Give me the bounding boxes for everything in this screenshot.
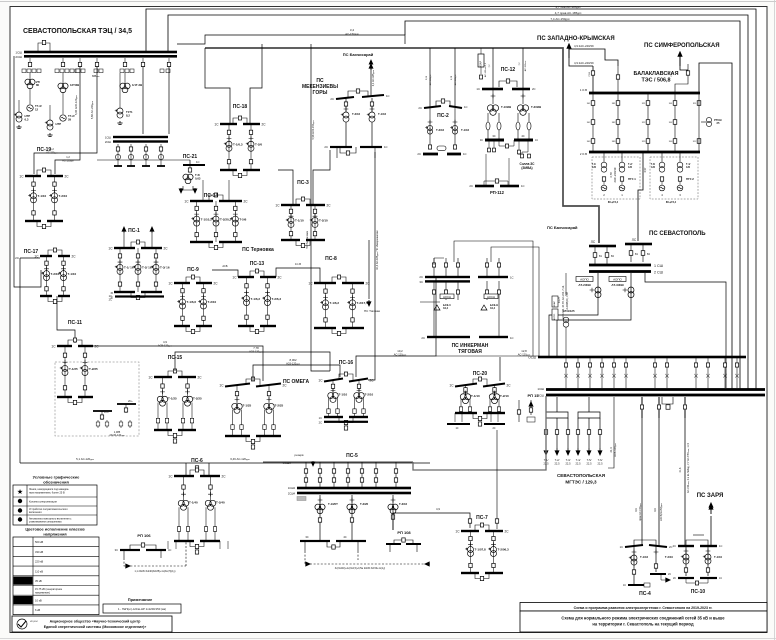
svg-text:Т-3/ 16: Т-3/ 16 xyxy=(160,266,170,270)
PS-11 compensation dashed box xyxy=(55,362,139,436)
PS ZAPADNO-KRYMSKAYA arrow xyxy=(537,36,618,66)
svg-text:2С: 2С xyxy=(507,384,512,388)
svg-text:Т-2/10: Т-2/10 xyxy=(59,194,68,198)
TEC transformer T1T1 8,2 xyxy=(115,73,133,124)
ПС-14 transformer column Т-1/10,2 xyxy=(191,201,212,242)
PS-5 dashed ties bottom xyxy=(305,551,430,570)
svg-text:1С: 1С xyxy=(463,152,467,156)
svg-text:ПС ЗАРЯ: ПС ЗАРЯ xyxy=(697,493,724,499)
svg-text:2С: 2С xyxy=(278,276,283,280)
svg-text:ПС-20: ПС-20 xyxy=(473,371,488,377)
PS-16 lower double bus xyxy=(324,421,368,423)
ПС-3 bus-tie xyxy=(296,199,310,205)
svg-text:4,7 лев.АС-185доп: 4,7 лев.АС-185доп xyxy=(556,5,582,9)
line 4,7 prav AS-185 to right side xyxy=(168,15,748,389)
TEC generator TG-2 xyxy=(60,92,75,121)
svg-text:Т-2/6,3: Т-2/6,3 xyxy=(272,297,282,301)
line 4,9 PS-5 to PS-7 xyxy=(393,513,470,530)
PS-12 lower feeders xyxy=(488,141,521,155)
svg-text:1С: 1С xyxy=(719,544,722,548)
AOSN box 2 xyxy=(484,294,498,299)
svg-text:Т-1/10: Т-1/10 xyxy=(714,555,723,559)
svg-text:Т-2/17,5: Т-2/17,5 xyxy=(357,301,369,305)
svg-text:★: ★ xyxy=(17,488,23,496)
PS-12 lower buses xyxy=(480,134,538,148)
svg-text:4С: 4С xyxy=(480,139,483,142)
substation ПС-14 xyxy=(184,193,248,250)
PS-2 lower buses xyxy=(417,152,466,156)
company logo xyxy=(17,619,39,629)
svg-text:напряжения: напряжения xyxy=(43,531,66,536)
svg-text:ЛС: ЛС xyxy=(591,240,596,244)
svg-text:КЕАР: КЕАР xyxy=(553,301,556,307)
substation PS-2 xyxy=(418,99,467,119)
ПС-1 transformer column Т-3/ 16 xyxy=(151,248,170,292)
line PS-19 to PS-11 xyxy=(62,221,75,343)
svg-text:Т-1/ 16: Т-1/ 16 xyxy=(124,266,134,270)
ПС-17 transformer column Т-2/10 xyxy=(41,256,59,296)
svg-text:2С: 2С xyxy=(319,420,322,424)
svg-text:ПС-8: ПС-8 xyxy=(325,256,337,262)
ПС-14 transformer column Т-5/6 xyxy=(230,201,247,242)
svg-text:Т-1/10: Т-1/10 xyxy=(295,218,304,222)
substation RP-112 xyxy=(469,154,524,195)
PS-1 lower double bus xyxy=(115,295,164,297)
svg-text:ПС Бахчисарай: ПС Бахчисарай xyxy=(547,225,578,230)
substation ПС-1 xyxy=(108,228,169,300)
svg-text:1 О.В: 1 О.В xyxy=(580,88,587,92)
svg-text:Т-2/: Т-2/ xyxy=(555,458,560,462)
svg-text:1С: 1С xyxy=(620,545,623,549)
svg-text:2АСБ(3х150)доп: 2АСБ(3х150)доп xyxy=(660,503,663,521)
svg-text:1 СШ: 1 СШ xyxy=(654,264,663,268)
ПС-19 transformer column Т-1/10 xyxy=(28,176,46,221)
svg-text:Схема для нормального режима э: Схема для нормального режима электрическ… xyxy=(561,616,725,621)
line 10,2 PS-16 to Inkerman xyxy=(356,356,434,371)
svg-text:1С-В: 1С-В xyxy=(295,262,301,266)
svg-text:1С: 1С xyxy=(51,345,56,349)
svg-text:12: 12 xyxy=(35,107,39,111)
svg-text:Т-2/ 16: Т-2/ 16 xyxy=(142,266,152,270)
PS-17 left stub xyxy=(20,257,40,259)
line PS-13 - PS-8 xyxy=(276,270,314,283)
substation ПС-18 xyxy=(214,104,266,178)
svg-text:ПС-10: ПС-10 xyxy=(691,589,706,595)
svg-text:3С: 3С xyxy=(492,134,495,138)
svg-text:29: 29 xyxy=(68,117,72,121)
AOSN box 1 xyxy=(440,294,454,299)
PS-18 feeders up xyxy=(205,48,230,124)
svg-text:8,062: 8,062 xyxy=(290,358,297,362)
ПС-17 lower bus xyxy=(40,295,52,297)
svg-text:34,4: 34,4 xyxy=(490,306,496,310)
ПС-8 transformer column Т-1/6,2 xyxy=(320,283,339,328)
svg-text:4,9: 4,9 xyxy=(436,507,440,511)
svg-text:ПС ОМЕГА: ПС ОМЕГА xyxy=(283,379,310,385)
svg-text:1С: 1С xyxy=(719,577,722,580)
PS-2 transformer T-1/16 xyxy=(450,108,469,145)
svg-text:Т-1/6,2: Т-1/6,2 xyxy=(330,301,340,305)
svg-text:Т-5/: Т-5/ xyxy=(587,458,592,462)
ПС-8 bus-tie xyxy=(332,277,346,283)
svg-text:1С: 1С xyxy=(19,175,24,179)
svg-text:126: 126 xyxy=(686,166,691,169)
svg-text:1С: 1С xyxy=(108,247,113,251)
title block row 2 xyxy=(520,611,767,632)
TEC cell row 1 xyxy=(22,69,41,73)
svg-text:4,1 АС-185доп: 4,1 АС-185доп xyxy=(372,69,375,86)
ПС-19 lower bus xyxy=(25,220,41,222)
ПС-17 bus-tie xyxy=(48,250,62,256)
svg-text:2С: 2С xyxy=(370,379,375,383)
line 3,4 AS-150 TEC to PS-2/Mekenzievy xyxy=(177,35,405,44)
RP 15 feeder xyxy=(517,393,539,422)
TEC feeder breaker x143 xyxy=(141,58,144,67)
Balaklava breaker matrix xyxy=(587,94,677,151)
svg-text:1С: 1С xyxy=(386,94,390,98)
KBAR box xyxy=(478,48,484,79)
Sevastopol 2SSh links right to main bus xyxy=(645,273,726,388)
svg-text:1 - ПвП(нг)-А/2пв-НР 1х1200/15: 1 - ПвП(нг)-А/2пв-НР 1х1200/150 (мк) xyxy=(118,607,166,611)
PS-5 lower bus 3C 4C xyxy=(300,535,366,551)
grey supply line from main bus to PS-5 xyxy=(413,396,546,470)
svg-text:330 кВ: 330 кВ xyxy=(35,550,43,554)
svg-text:2С: 2С xyxy=(673,544,676,548)
svg-text:Т-4/: Т-4/ xyxy=(576,458,581,462)
TEC cell row 2 xyxy=(55,69,79,73)
svg-text:Т-1/6,6: Т-1/6,6 xyxy=(187,300,197,304)
svg-text:Т-1/10: Т-1/10 xyxy=(68,272,77,276)
svg-text:Единой энергетической системы: Единой энергетической системы (Московско… xyxy=(44,625,147,629)
svg-text:4,9: 4,9 xyxy=(163,340,167,344)
svg-text:7,78: 7,78 xyxy=(253,346,259,350)
svg-text:1С: 1С xyxy=(319,416,322,420)
svg-text:2С: 2С xyxy=(469,184,473,188)
svg-text:Т-1/16: Т-1/16 xyxy=(378,112,387,116)
svg-text:6 кВ: 6 кВ xyxy=(35,608,40,612)
ПС-15 transformer column Т-2/25 xyxy=(181,377,202,430)
svg-text:СЕВАСТОПОЛЬСКАЯ ТЭЦ / 34,5: СЕВАСТОПОЛЬСКАЯ ТЭЦ / 34,5 xyxy=(23,28,132,35)
AOPO box AT-3/399 xyxy=(609,277,626,288)
PS-20 to OSSh link xyxy=(499,357,501,381)
svg-text:1/1Т-2В: 1/1Т-2В xyxy=(132,83,142,87)
svg-text:АОСН: АОСН xyxy=(443,295,451,299)
svg-text:АОПО: АОПО xyxy=(613,278,622,282)
TEC feeder breaker x63 xyxy=(61,58,64,67)
svg-text:Т-5/6: Т-5/6 xyxy=(239,217,246,221)
svg-text:126: 126 xyxy=(628,166,633,169)
svg-text:2С: 2С xyxy=(419,275,423,279)
Balaklava unit2 generators xyxy=(659,177,694,204)
svg-text:126: 126 xyxy=(592,166,597,169)
ПС-18 lower bus xyxy=(220,169,237,171)
svg-text:4,7 прав.АС-185доп: 4,7 прав.АС-185доп xyxy=(555,11,582,15)
svg-text:5,98 АСБ-150доп: 5,98 АСБ-150доп xyxy=(312,121,315,140)
svg-text:ПС Тяговая: ПС Тяговая xyxy=(364,309,380,313)
PS-1 feeder arrows up xyxy=(122,227,154,248)
svg-text:Т-1/20Т: Т-1/20Т xyxy=(328,502,338,506)
svg-text:12,8: 12,8 xyxy=(521,349,527,353)
Balaklava line down to Sevastopol 0,57 xyxy=(621,199,623,210)
line Balaklava to Sevastopol LS2 xyxy=(638,152,643,241)
ПС-18 transformer column Т-1/6,3 xyxy=(224,124,243,170)
ПС-16 bus-tie xyxy=(339,374,353,380)
svg-text:1С: 1С xyxy=(535,139,538,142)
svg-text:Т-2/10: Т-2/10 xyxy=(365,393,374,397)
grey line to PS-10 xyxy=(684,397,686,545)
svg-text:1С: 1С xyxy=(464,105,468,109)
ПС-3 lower bus xyxy=(281,239,300,241)
svg-text:АОСН: АОСН xyxy=(487,295,495,299)
svg-text:ПС-9: ПС-9 xyxy=(187,267,199,273)
Sevastopol main double bus 1SSh 2SSh xyxy=(589,264,663,275)
ПС ОМЕГА transformer column Т-2/25 xyxy=(263,385,284,436)
substation ПС-11 xyxy=(51,320,99,405)
PS-5 main double bus xyxy=(288,486,411,496)
svg-text:Т-6/: Т-6/ xyxy=(598,458,603,462)
ПС-11 lower bus xyxy=(57,396,72,398)
substation PS ZARYA xyxy=(697,493,724,545)
svg-text:3С: 3С xyxy=(419,280,423,284)
svg-text:1С: 1С xyxy=(510,276,514,280)
TEC cell row 3 xyxy=(76,69,103,73)
TEC cell row 5 xyxy=(160,69,170,73)
line 4,7 lev AS-185 to right side xyxy=(146,9,756,389)
substation ПС-16 xyxy=(318,360,374,430)
svg-text:Т-2/25: Т-2/25 xyxy=(275,403,284,407)
svg-text:21,8: 21,8 xyxy=(679,467,682,472)
svg-text:12Т/2В: 12Т/2В xyxy=(70,83,79,87)
Inkerman routing to OSSh xyxy=(454,241,533,356)
TEC aux transformer NTR 6,3 xyxy=(14,100,30,128)
svg-text:ПС-19: ПС-19 xyxy=(37,147,52,153)
TEC feeder breaker x169 xyxy=(167,58,170,67)
NTR tap below main bus xyxy=(662,397,673,409)
svg-text:6,3: 6,3 xyxy=(25,117,29,121)
Sevastopol AT-3 autotransformer xyxy=(623,273,634,308)
ПС-13 bus-tie xyxy=(250,271,264,277)
svg-text:Т-1/10: Т-1/10 xyxy=(38,194,47,198)
grey line to PS-4 left xyxy=(641,397,643,546)
PS-7 feeder candles xyxy=(468,430,498,529)
legend symbols table xyxy=(13,485,97,525)
svg-text:4С: 4С xyxy=(168,548,171,552)
TEC main bus 1SSh 2SSh xyxy=(15,51,177,60)
Balaklava unit1 generators xyxy=(601,177,636,204)
ПС-14 lower bus xyxy=(190,241,213,243)
svg-text:Т-2/6: Т-2/6 xyxy=(255,143,262,147)
svg-text:Т-1/07,8: Т-1/07,8 xyxy=(475,548,487,552)
left feeder line from TEC xyxy=(14,56,41,287)
svg-text:Т-1/6,2: Т-1/6,2 xyxy=(251,297,261,301)
svg-text:2С: 2С xyxy=(95,345,100,349)
substation PS INKERMAN TYAGOVAYA xyxy=(419,275,513,284)
svg-text:1СШ: 1СШ xyxy=(537,387,544,391)
svg-text:2С: 2С xyxy=(262,123,267,127)
substation PS MEKENZIEVY GORY xyxy=(302,78,390,101)
PS-2 lower cells xyxy=(428,145,456,151)
svg-text:2С: 2С xyxy=(418,106,422,110)
svg-text:2С: 2С xyxy=(65,175,70,179)
svg-text:2С: 2С xyxy=(244,200,249,204)
line 7,78 PS-15 to PS-16 xyxy=(175,352,330,371)
Balaklava unit1 transformer T-1 xyxy=(592,152,607,172)
svg-text:22,5: 22,5 xyxy=(554,462,560,466)
substation PS-5 top line xyxy=(263,453,413,465)
Inkerman feeders up xyxy=(375,240,446,258)
ПС-20 transformer column Т-1/10 xyxy=(459,385,480,413)
svg-text:7,4 АС-150доп: 7,4 АС-150доп xyxy=(550,17,570,21)
svg-text:1С: 1С xyxy=(214,123,219,127)
AOPO box AT-2/399 xyxy=(576,277,593,288)
PS-4 reactor xyxy=(644,583,650,590)
svg-text:2С: 2С xyxy=(109,298,112,302)
Balaklava unit2 transformer T-4 xyxy=(677,152,690,172)
svg-text:1С: 1С xyxy=(521,184,525,188)
svg-text:АСБ: АСБ xyxy=(222,264,228,268)
svg-text:2СШ: 2СШ xyxy=(105,140,112,144)
ПС-14 bus-tie xyxy=(209,195,223,201)
svg-text:1С: 1С xyxy=(148,376,153,380)
ПС-18 transformer column Т-2/6 xyxy=(246,124,263,170)
svg-text:2С: 2С xyxy=(421,336,425,340)
svg-text:1СШ: 1СШ xyxy=(15,51,22,55)
TEC transformer 12T/2V xyxy=(58,73,79,93)
svg-text:Примечание: Примечание xyxy=(128,597,153,602)
note box xyxy=(103,604,181,613)
ПС-11 transformer column Т-1/25 xyxy=(60,346,78,397)
svg-text:ТЯГОВАЯ: ТЯГОВАЯ xyxy=(458,349,482,355)
svg-text:обозначения: обозначения xyxy=(43,480,69,485)
PS-5 transformer T-3/16 xyxy=(388,495,408,530)
svg-text:АТ-3/399: АТ-3/399 xyxy=(611,283,624,287)
substation PS-12 xyxy=(499,67,517,87)
svg-text:РП 106: РП 106 xyxy=(137,533,151,538)
reserve arrow PS-5 xyxy=(311,461,315,466)
svg-text:Т-1/10: Т-1/10 xyxy=(471,394,480,398)
svg-text:2С: 2С xyxy=(668,573,671,576)
Balaklava gen unit 1 dashed box xyxy=(592,157,640,199)
substation ПС-8 xyxy=(308,256,370,336)
OSSh-1SSh breaker columns xyxy=(564,358,739,388)
svg-text:1С: 1С xyxy=(623,584,626,587)
power plant BALAKLAVSKAYA TES xyxy=(634,71,679,84)
svg-text:Т-2/25: Т-2/25 xyxy=(89,367,98,371)
svg-text:2 О.В: 2 О.В xyxy=(580,152,587,156)
MGTES unit labels xyxy=(543,458,603,466)
substation ПС-6 xyxy=(168,458,226,554)
svg-text:1С: 1С xyxy=(196,160,200,164)
svg-text:1С: 1С xyxy=(318,379,323,383)
TEC 6kV bus 1SSh 2SSh xyxy=(105,136,168,145)
ПС-11 bus-tie xyxy=(68,340,82,346)
svg-text:2С: 2С xyxy=(366,282,371,286)
svg-text:НТР: НТР xyxy=(56,122,62,126)
svg-text:включения: включения xyxy=(29,511,42,514)
svg-text:Т-2/16: Т-2/16 xyxy=(352,112,361,116)
PS-2 transformer T-2/16 xyxy=(425,108,444,145)
svg-text:4С: 4С xyxy=(343,535,346,539)
ПС-18 bus-tie xyxy=(233,118,247,124)
svg-text:500 кВ: 500 кВ xyxy=(35,540,43,544)
PS-11 capacitor cells xyxy=(96,420,132,437)
ПС-1 bus-tie xyxy=(131,242,145,248)
PS-2 feeder lines from grid xyxy=(426,48,457,107)
ПС-19 bus-tie xyxy=(37,170,51,176)
svg-text:АС-150лев-5,1: АС-150лев-5,1 xyxy=(484,62,487,77)
svg-text:напряжение): напряжение) xyxy=(35,592,50,595)
svg-text:Т-2/10: Т-2/10 xyxy=(665,555,674,559)
Balaklava right feeder 3T1 xyxy=(693,94,701,151)
BSK-N capacitor xyxy=(481,303,498,310)
Balaklava gen unit 2 dashed box xyxy=(650,157,698,199)
TEC feeder breaker x80 xyxy=(78,58,81,67)
svg-text:1С: 1С xyxy=(184,200,189,204)
PS-12 transformer T-1/32V xyxy=(487,90,511,115)
ПС ОМЕГА bus-tie xyxy=(246,379,260,385)
svg-text:ПС-6: ПС-6 xyxy=(191,458,203,464)
ПС-6 bus-tie xyxy=(190,470,204,476)
ПС-15 bus-tie xyxy=(168,371,182,377)
svg-text:АТ-2/399: АТ-2/399 xyxy=(578,283,591,287)
svg-text:3х(3х240)+1х(3х2,5)+0,5м 2АСБ: 3х(3х240)+1х(3х2,5)+0,5м 2АСБ 3х150+1х(1… xyxy=(335,567,386,570)
long line 5,1 AS-120 bottom left xyxy=(20,462,430,464)
svg-text:2С: 2С xyxy=(330,97,334,101)
TEC line 5,06 xyxy=(55,66,80,174)
ПС-7 transformer column Т-1/07,8 xyxy=(465,531,486,573)
TEC feeder breaker x30 xyxy=(28,58,31,67)
line 7,4 AS-150 top xyxy=(405,21,740,389)
svg-text:8,2: 8,2 xyxy=(126,113,130,117)
svg-text:АС-150лев, 2 в Ш-Побед, 7,7 АС: АС-150лев, 2 в Ш-Побед, 7,7 АС-ТВБлев, 1… xyxy=(687,442,690,493)
legend row texts xyxy=(29,488,72,524)
ПС-9 transformer column Т-2/10 xyxy=(198,283,216,326)
long vertical x311 TEC to PS-16 xyxy=(311,44,330,371)
line 4,9 ASB-120 PS-11 to Omega xyxy=(93,346,263,381)
svg-text:1С: 1С xyxy=(476,87,480,91)
svg-text:Т-1/25: Т-1/25 xyxy=(168,396,177,400)
svg-text:10 кВ: 10 кВ xyxy=(35,598,42,602)
TEC generator TG-3 xyxy=(27,88,42,111)
Balaklava feeders up to grid xyxy=(592,66,594,94)
ПС-3 transformer column Т-2/10 xyxy=(310,205,328,240)
substation ПС-9 xyxy=(168,267,218,334)
TEC 6kV feeders xyxy=(114,144,165,167)
ПС-1 lower bus xyxy=(114,291,135,293)
svg-text:10,4 АС-185доп ПС Инкерманская: 10,4 АС-185доп ПС Инкерманская xyxy=(376,230,379,270)
svg-text:АС-150доп: АС-150доп xyxy=(454,75,457,85)
svg-text:2С: 2С xyxy=(417,152,421,156)
svg-text:1С: 1С xyxy=(275,204,280,208)
svg-text:1С: 1С xyxy=(109,294,112,298)
svg-text:1С: 1С xyxy=(232,276,237,280)
PS-11 capacitor bank 2C xyxy=(117,399,136,413)
Mekenzievy transformer T-1/16 xyxy=(341,98,361,122)
svg-text:Т-1/16: Т-1/16 xyxy=(640,555,649,559)
PS-3 feeders up xyxy=(278,170,293,205)
svg-text:2С: 2С xyxy=(214,282,219,286)
substation ПС-15 xyxy=(148,355,202,443)
svg-text:1С: 1С xyxy=(455,427,458,430)
Balaklava bus 2 O.V xyxy=(580,151,700,156)
svg-text:прав АС-150доп: прав АС-150доп xyxy=(639,503,642,520)
PS-5 column risers xyxy=(304,462,397,487)
svg-text:2 СШ: 2 СШ xyxy=(654,271,663,275)
TEC aux transformer NTR2 xyxy=(45,105,61,136)
svg-text:10,2: 10,2 xyxy=(397,349,403,353)
PS-20 extra lower cells xyxy=(447,413,505,430)
svg-text:22,5: 22,5 xyxy=(565,462,571,466)
